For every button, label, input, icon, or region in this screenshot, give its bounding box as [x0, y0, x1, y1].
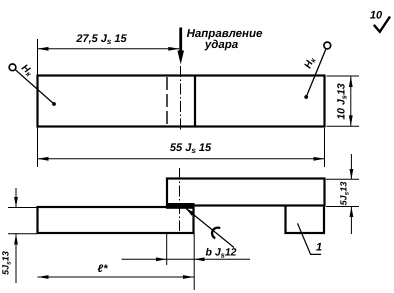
svg-text:10: 10 [370, 10, 383, 22]
svg-text:1: 1 [316, 242, 322, 254]
svg-text:27,5 Js 15: 27,5 Js 15 [75, 33, 127, 46]
svg-text:10 Js13: 10 Js13 [336, 83, 349, 119]
svg-text:55 Js 15: 55 Js 15 [170, 142, 212, 155]
svg-text:удара: удара [204, 39, 239, 51]
svg-text:ℓ*: ℓ* [98, 263, 109, 275]
